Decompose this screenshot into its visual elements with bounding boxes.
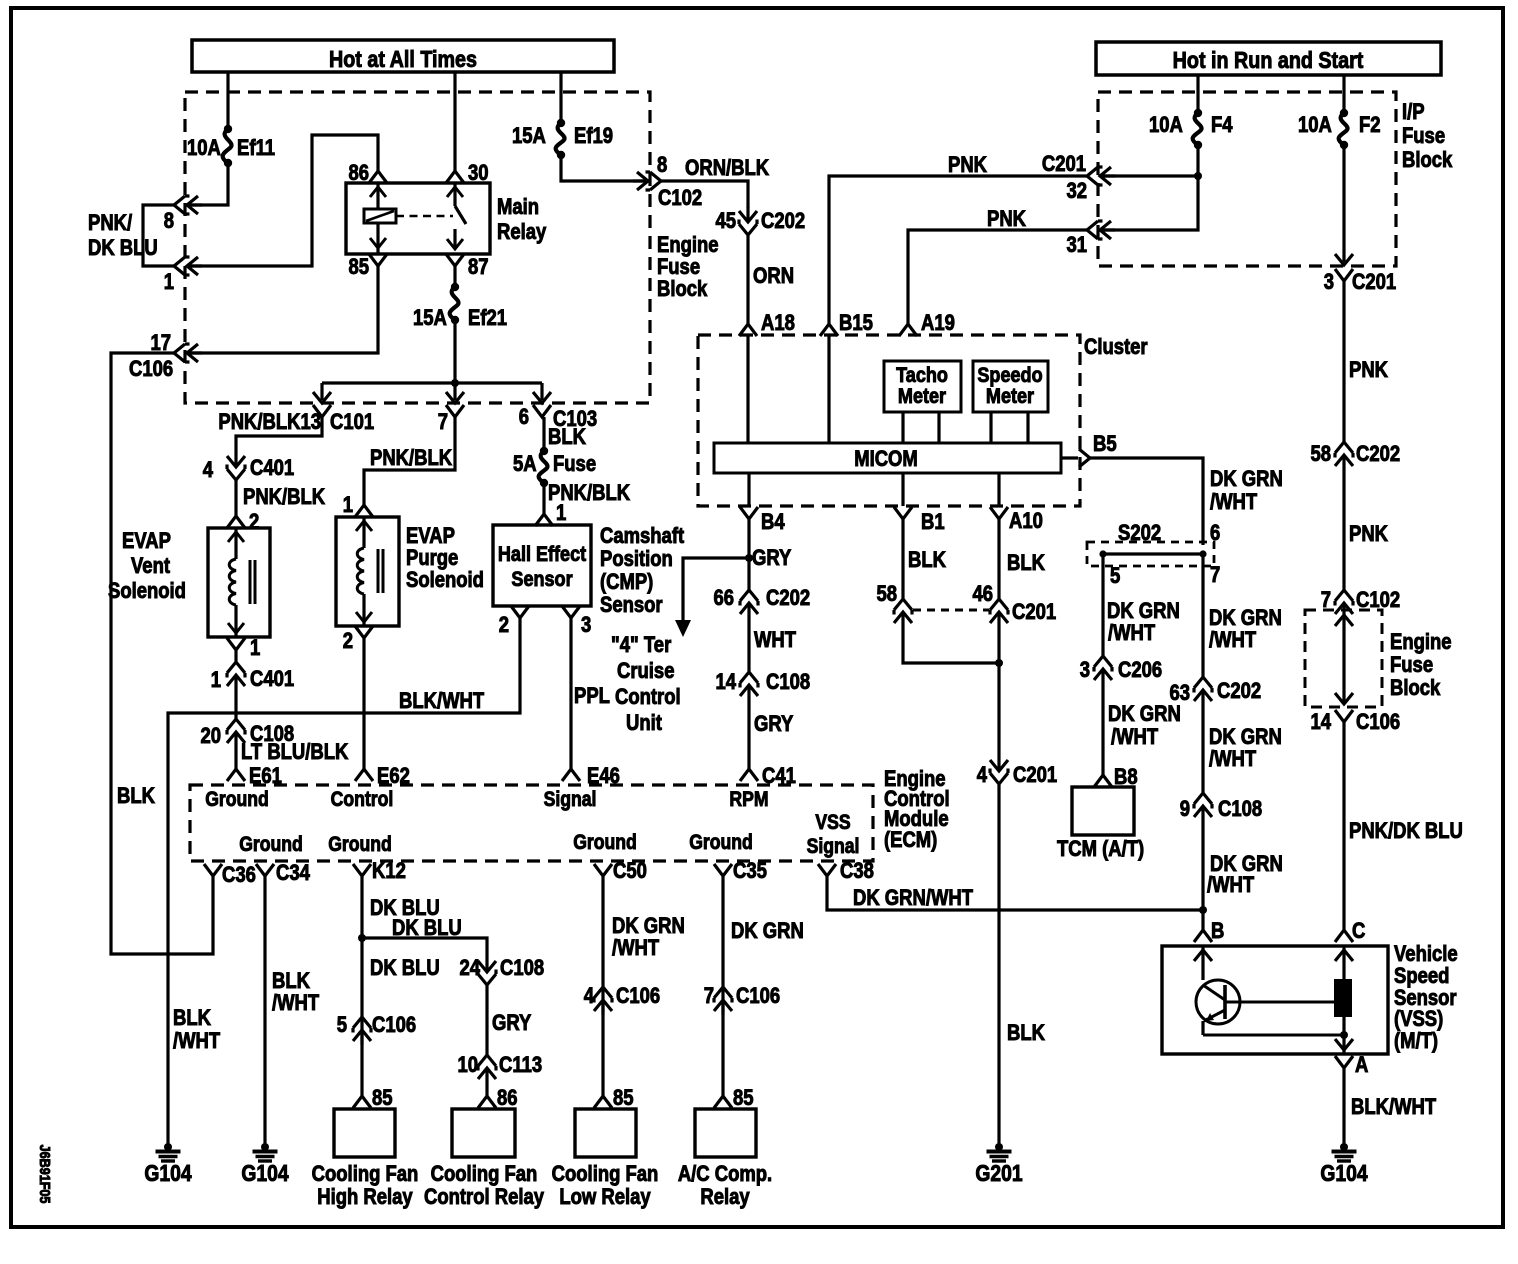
- svg-text:F2: F2: [1359, 114, 1381, 138]
- vent solenoid pin 2 fork: [227, 516, 245, 528]
- wire fuse to hall sensor pin 1: [542, 483, 545, 514]
- dashed link C201: [913, 609, 989, 612]
- svg-text:10A: 10A: [1149, 114, 1183, 138]
- svg-text:B: B: [1211, 920, 1224, 944]
- svg-text:4: 4: [584, 985, 595, 1009]
- ECM pin E61 fork: [227, 769, 245, 781]
- connector C201 pin 46: [990, 599, 1008, 627]
- svg-text:C201: C201: [1013, 764, 1057, 788]
- connector C201 pin 3 fork: [1335, 269, 1353, 281]
- svg-text:/WHT: /WHT: [1207, 874, 1255, 898]
- svg-text:1: 1: [211, 669, 221, 693]
- ground G104 right: [1340, 1143, 1348, 1151]
- wire to ECM C41: [747, 700, 750, 769]
- wire C50 down: [601, 876, 604, 1096]
- svg-text:Cooling Fan: Cooling Fan: [552, 1163, 659, 1187]
- svg-text:/WHT: /WHT: [173, 1030, 221, 1054]
- junction: [451, 379, 459, 387]
- svg-text:Sensor: Sensor: [511, 568, 572, 592]
- svg-text:Ground: Ground: [573, 831, 637, 855]
- svg-text:C36: C36: [222, 864, 256, 888]
- svg-text:C108: C108: [766, 671, 810, 695]
- svg-text:Control: Control: [615, 686, 681, 710]
- svg-text:85: 85: [613, 1087, 634, 1111]
- svg-text:9: 9: [1180, 798, 1190, 822]
- fuse F4 10A: [1194, 109, 1202, 117]
- connector C113 pin 10: [478, 1055, 496, 1083]
- svg-text:G104: G104: [144, 1162, 191, 1187]
- svg-text:PNK: PNK: [1349, 523, 1388, 547]
- svg-text:8: 8: [657, 154, 667, 178]
- VSS pin A fork: [1335, 1056, 1353, 1068]
- svg-text:C106: C106: [736, 985, 780, 1009]
- svg-text:C34: C34: [276, 862, 311, 886]
- connector C102 pin 8: [633, 172, 661, 190]
- VSS internal wires: [1342, 946, 1345, 979]
- svg-text:A: A: [1355, 1054, 1369, 1078]
- svg-text:C201: C201: [1042, 153, 1086, 177]
- svg-text:PNK/BLK: PNK/BLK: [370, 447, 452, 471]
- wire to ground G201: [997, 784, 1000, 1147]
- wire S202 pin 5 down: [1101, 554, 1104, 656]
- fuse F2 10A: [1340, 109, 1348, 117]
- wire A18 into MICOM: [746, 336, 749, 443]
- svg-text:86: 86: [497, 1087, 518, 1111]
- EVAP vent solenoid box: [208, 528, 270, 637]
- svg-text:Camshaft: Camshaft: [600, 525, 684, 549]
- svg-text:BLK: BLK: [272, 970, 310, 994]
- svg-text:ORN/BLK: ORN/BLK: [685, 157, 769, 181]
- svg-text:85: 85: [348, 256, 369, 280]
- svg-text:C201: C201: [1012, 601, 1056, 625]
- svg-text:5A: 5A: [513, 453, 537, 477]
- wire C102-8 to C202-45: [661, 181, 748, 208]
- svg-text:Ground: Ground: [205, 788, 269, 812]
- ground G104 second: [261, 1143, 269, 1151]
- svg-text:/WHT: /WHT: [612, 937, 660, 961]
- svg-text:RPM: RPM: [729, 788, 768, 812]
- connector C108 pin 9: [1194, 793, 1212, 821]
- ECM pin E62 fork: [355, 769, 373, 781]
- vehicle speed sensor box: [1162, 946, 1388, 1054]
- arrow to cruise control unit: [675, 620, 691, 637]
- connector C108 pin 14: [740, 672, 758, 700]
- hall pin 3 fork: [562, 606, 580, 618]
- A/C comp relay box: [695, 1109, 756, 1157]
- svg-text:(CMP): (CMP): [600, 571, 653, 595]
- svg-text:32: 32: [1066, 180, 1087, 204]
- svg-text:BLK: BLK: [1007, 1022, 1045, 1046]
- wire to C108-14: [747, 618, 750, 672]
- svg-text:20: 20: [200, 725, 221, 749]
- svg-text:Solenoid: Solenoid: [406, 569, 484, 593]
- svg-text:Low Relay: Low Relay: [559, 1186, 651, 1210]
- fuse Ef19 15A: [557, 119, 565, 127]
- connector C202 pin 58: [1335, 442, 1353, 470]
- svg-text:2: 2: [343, 630, 353, 654]
- wire C108-20 to ECM E61: [234, 747, 237, 769]
- svg-text:EVAP: EVAP: [122, 530, 171, 554]
- wire pin1 to C401-1: [234, 650, 237, 662]
- cooling fan control relay box: [452, 1109, 515, 1157]
- svg-text:A18: A18: [761, 312, 795, 336]
- connector C201 pin 32: [1087, 167, 1115, 185]
- wire: Hot box to relay pin 30: [453, 72, 456, 171]
- wire B15 into MICOM: [827, 336, 830, 443]
- svg-text:Purge: Purge: [406, 547, 458, 571]
- power box: Hot at All Times: [192, 40, 614, 72]
- VSS transistor: [1201, 946, 1204, 980]
- svg-text:Signal: Signal: [807, 835, 860, 859]
- svg-text:Meter: Meter: [898, 385, 946, 409]
- svg-text:Cooling Fan: Cooling Fan: [312, 1163, 419, 1187]
- connector C201 pin 4: [990, 756, 1008, 784]
- svg-text:BLK/WHT: BLK/WHT: [399, 690, 485, 714]
- MICOM box: [714, 443, 1061, 473]
- svg-text:Engine: Engine: [1390, 631, 1452, 655]
- purge solenoid pin 2 fork: [355, 626, 373, 638]
- ECM pin C50 fork: [594, 864, 612, 876]
- power box: Hot in Run and Start: [1096, 42, 1441, 75]
- wire 46 down to C201-4: [997, 627, 1000, 756]
- svg-text:/WHT: /WHT: [1210, 491, 1258, 515]
- wire to junction: [1201, 821, 1204, 930]
- svg-text:3: 3: [581, 614, 591, 638]
- hall effect sensor box: [493, 525, 591, 606]
- svg-text:Block: Block: [657, 278, 708, 302]
- wire S202 pin 7 down: [1201, 554, 1204, 677]
- connector C108 pin 24: [478, 957, 496, 985]
- wire: relay 85 to connector 17: [190, 266, 378, 353]
- wire to C202-66: [747, 558, 750, 590]
- svg-text:GRY: GRY: [752, 547, 792, 571]
- connector C106 pin 14 fork: [1335, 710, 1353, 722]
- connector C206 pin 3: [1094, 656, 1112, 684]
- svg-text:58: 58: [876, 583, 897, 607]
- svg-text:EVAP: EVAP: [406, 525, 455, 549]
- svg-text:Vehicle: Vehicle: [1394, 943, 1458, 967]
- connector C106 pin 5: [353, 1017, 371, 1045]
- wire: Ef11 to connector 8: [190, 163, 228, 205]
- svg-text:(M/T): (M/T): [1394, 1030, 1438, 1054]
- connector C106 pin 8 (PNK/DK BLU): [174, 196, 202, 214]
- ECM pin C34 fork: [256, 864, 274, 876]
- wire: C103-6 to fuse: [542, 417, 545, 451]
- svg-text:Relay: Relay: [497, 221, 547, 245]
- svg-text:BLK: BLK: [1007, 552, 1045, 576]
- cluster pin B1 fork: [894, 507, 912, 519]
- splice S202 (dashed box): [1087, 542, 1214, 566]
- svg-text:/WHT: /WHT: [1111, 726, 1159, 750]
- svg-text:85: 85: [372, 1087, 393, 1111]
- svg-text:Control Relay: Control Relay: [424, 1186, 545, 1210]
- svg-text:F4: F4: [1211, 114, 1233, 138]
- svg-text:C: C: [1352, 920, 1366, 944]
- svg-text:PNK: PNK: [987, 208, 1026, 232]
- svg-text:3: 3: [1324, 271, 1334, 295]
- svg-text:K12: K12: [372, 860, 406, 884]
- svg-text:A10: A10: [1009, 510, 1043, 534]
- svg-text:Cooling Fan: Cooling Fan: [431, 1163, 538, 1187]
- connector C103 pin 6 fork: [533, 405, 551, 417]
- connector C101 pin 7 fork: [446, 405, 464, 417]
- VSS pin B fork: [1194, 930, 1212, 942]
- wire: distribution bus: [322, 381, 542, 384]
- svg-text:C113: C113: [499, 1054, 542, 1078]
- svg-text:Ground: Ground: [328, 833, 392, 857]
- svg-text:Fuse: Fuse: [553, 453, 596, 477]
- wire MICOM to B1: [901, 473, 904, 506]
- svg-text:BLK: BLK: [908, 549, 946, 573]
- svg-text:WHT: WHT: [754, 629, 797, 653]
- svg-text:Position: Position: [600, 548, 673, 572]
- wire MICOM to B4: [747, 473, 750, 506]
- svg-text:1: 1: [556, 502, 566, 526]
- svg-text:58: 58: [1310, 443, 1331, 467]
- svg-text:Block: Block: [1390, 677, 1441, 701]
- cooling fan low relay box: [575, 1109, 636, 1157]
- ECM pin E46 fork: [562, 769, 580, 781]
- wire to C108-9: [1201, 705, 1204, 793]
- svg-text:Fuse: Fuse: [657, 256, 700, 280]
- wire A to ground: [1342, 1068, 1345, 1147]
- svg-text:B4: B4: [761, 511, 785, 535]
- wire: C101-7 to purge solenoid: [364, 417, 455, 505]
- connector C202 pin 45: [739, 207, 757, 235]
- wire DK BLU branch to control relay: [362, 938, 487, 957]
- connector C106 pin 7: [714, 987, 732, 1015]
- svg-text:DK GRN: DK GRN: [1209, 607, 1282, 631]
- connector C108 pin 20: [227, 719, 245, 747]
- speedo meter box: [973, 361, 1048, 412]
- svg-text:DK GRN: DK GRN: [1108, 703, 1181, 727]
- svg-text:Hot in Run and Start: Hot in Run and Start: [1173, 46, 1364, 73]
- svg-text:14: 14: [1310, 711, 1331, 735]
- relay coil: [376, 183, 379, 209]
- svg-text:BLK/WHT: BLK/WHT: [1351, 1096, 1437, 1120]
- engine fuse block (dashed): [185, 92, 650, 403]
- wires speedo to MICOM: [989, 412, 992, 443]
- wire junction to ECM C38 (DK GRN/WHT): [827, 876, 1203, 910]
- svg-text:PNK: PNK: [948, 154, 987, 178]
- wire stub to C103 pin 6: [540, 383, 543, 400]
- svg-text:Signal: Signal: [544, 788, 597, 812]
- svg-text:DK GRN: DK GRN: [1210, 468, 1283, 492]
- svg-text:10A: 10A: [1298, 114, 1332, 138]
- svg-text:C201: C201: [1352, 271, 1396, 295]
- wire MICOM to B5: [1061, 456, 1078, 459]
- svg-text:BLK: BLK: [117, 785, 155, 809]
- svg-text:Engine: Engine: [657, 234, 719, 258]
- svg-text:C35: C35: [733, 860, 767, 884]
- svg-text:A/C Comp.: A/C Comp.: [678, 1163, 772, 1187]
- wire K12 down: [360, 876, 363, 1096]
- svg-text:B5: B5: [1093, 433, 1117, 457]
- ECM pin C35 fork: [714, 864, 732, 876]
- svg-text:J6B91F05: J6B91F05: [37, 1145, 54, 1204]
- svg-text:(ECM): (ECM): [884, 829, 937, 853]
- cooling fan low relay pin 85 fork: [594, 1096, 612, 1108]
- TCM pin B8 fork: [1094, 775, 1112, 787]
- svg-text:S202: S202: [1118, 522, 1161, 546]
- svg-text:/WHT: /WHT: [1209, 629, 1257, 653]
- ground G104 left: [164, 1143, 172, 1151]
- wire C202-45 to cluster A18: [746, 235, 749, 324]
- svg-text:15A: 15A: [512, 125, 546, 149]
- wire through fuse block: [1342, 618, 1345, 704]
- ground G201: [995, 1143, 1003, 1151]
- svg-text:30: 30: [468, 162, 489, 186]
- hall pin 2 fork: [511, 606, 529, 618]
- svg-text:GRY: GRY: [754, 713, 794, 737]
- svg-text:14: 14: [715, 671, 736, 695]
- svg-text:Fuse: Fuse: [1402, 125, 1445, 149]
- svg-text:PNK/BLK: PNK/BLK: [243, 486, 325, 510]
- junction: [1194, 172, 1202, 180]
- wire F4 lower branch to pin 31: [1102, 176, 1198, 230]
- svg-text:A19: A19: [921, 312, 955, 336]
- connector C106 pin 17: [174, 344, 202, 362]
- svg-text:DK GRN: DK GRN: [731, 920, 804, 944]
- svg-text:Meter: Meter: [986, 385, 1034, 409]
- cluster pin A18 fork: [739, 324, 757, 336]
- relay pin 87 fork: [446, 254, 464, 266]
- svg-text:1: 1: [343, 494, 353, 518]
- fuse Ef21 15A: [451, 283, 459, 291]
- connector C202 pin 63: [1194, 677, 1212, 705]
- wire C401-1 down to C108-20: [234, 690, 237, 719]
- svg-text:DK GRN: DK GRN: [1209, 726, 1282, 750]
- svg-text:Ef21: Ef21: [468, 307, 507, 331]
- svg-text:1: 1: [164, 271, 174, 295]
- svg-text:PNK/: PNK/: [88, 212, 132, 236]
- connector C202 pin 66: [740, 590, 758, 618]
- svg-text:8: 8: [164, 210, 174, 234]
- svg-text:86: 86: [348, 162, 369, 186]
- label 5A fuse: [540, 447, 548, 455]
- wire B4 down: [747, 519, 750, 558]
- wire MICOM to A10: [997, 473, 1000, 506]
- svg-text:PPL: PPL: [574, 685, 610, 709]
- wire hall pin2 BLK/WHT: [168, 618, 520, 1147]
- junction: [745, 554, 753, 562]
- svg-text:C38: C38: [840, 860, 874, 884]
- svg-text:Ef19: Ef19: [574, 125, 613, 149]
- svg-text:5: 5: [337, 1014, 347, 1038]
- connector C101 pin 13 fork: [313, 405, 331, 417]
- wire PNK from 31 to cluster A19: [908, 230, 1087, 324]
- svg-text:Speed: Speed: [1394, 965, 1449, 989]
- svg-text:Hall Effect: Hall Effect: [498, 543, 587, 567]
- connector C102 pin 7: [1335, 590, 1353, 618]
- svg-text:7: 7: [704, 985, 714, 1009]
- svg-text:/WHT: /WHT: [1209, 748, 1257, 772]
- svg-text:85: 85: [733, 1087, 754, 1111]
- cooling fan high relay box: [334, 1109, 395, 1157]
- junction: [1199, 906, 1207, 914]
- svg-text:6: 6: [1210, 522, 1220, 546]
- svg-text:7: 7: [1210, 564, 1220, 588]
- tacho meter box: [884, 361, 961, 412]
- svg-text:MICOM: MICOM: [854, 448, 918, 472]
- EVAP purge solenoid box: [336, 517, 399, 626]
- connector B5 (cluster exit): [1079, 449, 1090, 467]
- svg-text:C101: C101: [330, 411, 374, 435]
- svg-text:"4" Ter: "4" Ter: [611, 634, 671, 658]
- svg-text:VSS: VSS: [815, 811, 850, 835]
- svg-text:LT BLU/BLK: LT BLU/BLK: [241, 741, 349, 765]
- svg-text:DK GRN: DK GRN: [612, 915, 685, 939]
- svg-text:Relay: Relay: [700, 1186, 750, 1210]
- svg-text:C202: C202: [1356, 443, 1400, 467]
- svg-text:TCM (A/T): TCM (A/T): [1057, 838, 1144, 862]
- cluster pin B15 fork: [820, 324, 838, 336]
- relay pin 86 fork: [369, 171, 387, 183]
- svg-text:C202: C202: [1217, 680, 1261, 704]
- TCM box: [1072, 787, 1134, 835]
- wire C201-3 down: [1342, 281, 1345, 442]
- svg-text:Control: Control: [331, 788, 394, 812]
- fuse Ef11 10A: [224, 125, 232, 133]
- vent solenoid pin 1 fork: [227, 638, 245, 650]
- svg-text:Unit: Unit: [626, 712, 662, 736]
- svg-text:C108: C108: [500, 957, 544, 981]
- svg-text:/WHT: /WHT: [1108, 622, 1156, 646]
- svg-text:C106: C106: [616, 985, 660, 1009]
- wire purge pin2 to ECM E62: [362, 638, 365, 769]
- wire hall pin3 to ECM E46: [569, 618, 572, 769]
- svg-text:C202: C202: [766, 587, 810, 611]
- I/P fuse block (dashed): [1098, 92, 1396, 266]
- svg-text:66: 66: [713, 587, 734, 611]
- wire to connector C201 pin 32: [1102, 174, 1198, 177]
- svg-text:6: 6: [519, 406, 529, 430]
- wire: Ef19 to connector C102 pin 8: [561, 155, 643, 181]
- svg-text:B1: B1: [921, 511, 945, 535]
- svg-text:Ef11: Ef11: [237, 137, 275, 161]
- main relay box: [346, 183, 490, 254]
- svg-text:4: 4: [977, 764, 988, 788]
- svg-text:C106: C106: [372, 1014, 416, 1038]
- svg-text:BLK: BLK: [548, 426, 586, 450]
- svg-text:Vent: Vent: [131, 555, 170, 579]
- svg-text:PNK/DK BLU: PNK/DK BLU: [1349, 820, 1463, 844]
- svg-text:Sensor: Sensor: [600, 594, 663, 618]
- svg-text:(VSS): (VSS): [1394, 1008, 1443, 1032]
- wire B1 down: [901, 519, 904, 599]
- svg-text:10: 10: [457, 1054, 478, 1078]
- relay switch: [453, 183, 456, 206]
- svg-text:Ground: Ground: [689, 831, 753, 855]
- wires tacho to MICOM: [901, 412, 904, 443]
- svg-text:PNK/BLK13: PNK/BLK13: [218, 411, 321, 435]
- svg-text:87: 87: [468, 256, 489, 280]
- wire: Hot box to fuse Ef11: [226, 72, 229, 129]
- wire: Ef21 to distribution node: [453, 320, 456, 383]
- VSS pickup element: [1240, 1001, 1334, 1004]
- svg-text:2: 2: [499, 614, 509, 638]
- relay link (dashed): [396, 215, 453, 218]
- svg-text:24: 24: [459, 957, 480, 981]
- svg-text:5: 5: [1110, 565, 1120, 589]
- svg-text:Ground: Ground: [239, 833, 303, 857]
- svg-text:31: 31: [1066, 234, 1087, 258]
- ECM pin C41 fork: [740, 769, 758, 781]
- svg-text:C401: C401: [250, 668, 294, 692]
- svg-text:I/P: I/P: [1402, 101, 1425, 125]
- VSS pin C fork: [1335, 930, 1353, 942]
- connector C201 pin 58: [894, 599, 912, 627]
